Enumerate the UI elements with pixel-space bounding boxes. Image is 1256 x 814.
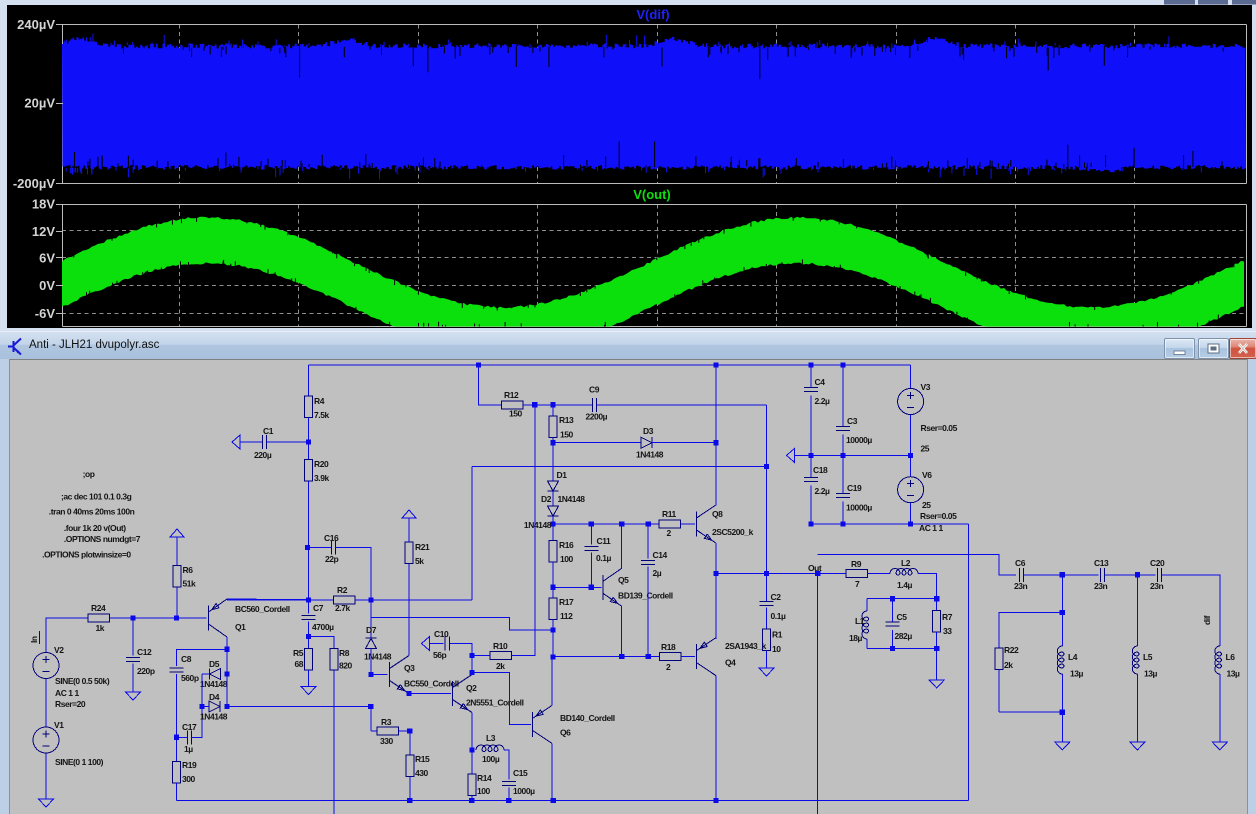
svg-text:R9: R9 (851, 559, 862, 569)
svg-text:;op: ;op (83, 469, 95, 479)
resistor R12 (502, 401, 524, 409)
junction C17 (174, 735, 179, 740)
ground R1 (759, 668, 774, 676)
svg-text:2.7k: 2.7k (335, 603, 350, 613)
capacitor C1 (262, 435, 266, 449)
wire In net (46, 618, 88, 652)
svg-text:C16: C16 (324, 533, 339, 543)
svg-text:D5: D5 (209, 659, 220, 669)
svg-text:R6: R6 (183, 565, 194, 575)
wire to R12 (479, 365, 502, 405)
junction R5/R8 (306, 634, 311, 639)
svg-text:R4: R4 (314, 396, 325, 406)
wire V6 top (910, 455, 912, 476)
junction C3 (840, 362, 845, 367)
wire R18 to Q4 base (681, 656, 695, 658)
resistor R9 (846, 570, 868, 578)
svg-text:3.9k: 3.9k (314, 473, 329, 483)
svg-text:C5: C5 (897, 612, 908, 622)
svg-text:23n: 23n (1094, 581, 1108, 591)
svg-text:C11: C11 (597, 536, 611, 546)
junction D5 (224, 671, 229, 676)
junction Q3 base (368, 672, 373, 677)
wire Q1e to R2 (227, 599, 334, 601)
wire C3 bottom (842, 435, 844, 456)
wire D7 to Q3 base (370, 649, 372, 675)
svg-text:0.1µ: 0.1µ (596, 553, 611, 563)
wire C17 left (177, 736, 188, 738)
svg-text:.OPTIONS numdgt=7: .OPTIONS numdgt=7 (64, 534, 141, 544)
wire R9 to L2 (868, 573, 891, 575)
svg-text:R12: R12 (504, 390, 519, 400)
svg-text:Q3: Q3 (404, 663, 415, 673)
svg-text:112: 112 (560, 611, 573, 621)
svg-text:SINE(0 0.5 50k): SINE(0 0.5 50k) (55, 676, 110, 686)
wire L1 bottom (866, 639, 868, 649)
svg-text:C1: C1 (263, 426, 274, 436)
wire C5 bottom lead (891, 630, 893, 648)
junction R17/fb (550, 627, 555, 632)
svg-text:240µV: 240µV (17, 17, 55, 32)
wire C5 top lead (891, 599, 893, 622)
resistor R15 (406, 755, 414, 777)
svg-text:282µ: 282µ (895, 631, 913, 641)
wire C4 top (810, 365, 812, 387)
voltage source V1 (33, 727, 59, 753)
capacitor C3 (836, 426, 850, 430)
junction D3 right (713, 440, 718, 445)
wire C18 bottom (810, 486, 812, 524)
svg-text:BD139_Cordell: BD139_Cordell (618, 591, 673, 601)
junction C14/R18 (646, 654, 651, 659)
svg-text:C2: C2 (771, 592, 782, 602)
svg-text:V6: V6 (922, 470, 932, 480)
wire D4 row to R3 riser (227, 706, 371, 708)
svg-text:2: 2 (666, 662, 671, 672)
wire Q6 collector to rail (551, 744, 553, 801)
resistor R16 (549, 541, 557, 563)
ground L4 (1055, 742, 1070, 750)
svg-text:Q2: Q2 (466, 683, 477, 693)
wire mid rail (795, 454, 911, 456)
svg-text:18µ: 18µ (849, 633, 863, 643)
svg-text:R2: R2 (337, 585, 348, 595)
svg-text:C15: C15 (513, 768, 528, 778)
junction D4 left (199, 704, 204, 709)
svg-text:BD140_Cordell: BD140_Cordell (560, 713, 615, 723)
resistor R7 (933, 611, 941, 633)
svg-text:C14: C14 (653, 550, 668, 560)
capacitor C5 (885, 622, 899, 626)
capacitor C15 (502, 781, 516, 785)
svg-text:300: 300 (182, 774, 196, 784)
junction C14 top (646, 521, 651, 526)
svg-text:7: 7 (855, 579, 860, 589)
junction C4 (808, 362, 813, 367)
svg-text:-200µV: -200µV (13, 176, 56, 191)
svg-text:Q5: Q5 (618, 575, 629, 585)
wire to C8 (177, 649, 228, 666)
junction 1N4148 node (550, 521, 555, 526)
wire Out to C6 (818, 554, 1017, 575)
junction Q1 collector (224, 647, 229, 652)
svg-text:R5: R5 (293, 648, 304, 658)
svg-text:Rser=20: Rser=20 (55, 699, 86, 709)
svg-text:23n: 23n (1014, 581, 1028, 591)
resistor R3 (377, 727, 399, 735)
junction rail R15 (407, 798, 412, 803)
svg-text:1N4148: 1N4148 (200, 679, 228, 689)
ground C12 (126, 692, 141, 700)
svg-text:1µ: 1µ (184, 744, 193, 754)
wire D2 to node (552, 516, 554, 524)
ground V1 (39, 799, 54, 807)
junction Out left (713, 571, 718, 576)
svg-text:R1: R1 (772, 630, 783, 640)
junction C7 top (306, 597, 311, 602)
waveform pane background (7, 5, 1252, 328)
junction rail Q6 (551, 798, 556, 803)
svg-text:C12: C12 (137, 647, 152, 657)
wire Q6 emitter up (551, 657, 553, 706)
wire Q8 collector (715, 365, 717, 506)
svg-text:2.2µ: 2.2µ (815, 486, 830, 496)
svg-text:D2: D2 (541, 494, 552, 504)
svg-text:2SA1943_k: 2SA1943_k (725, 641, 767, 651)
svg-text:D4: D4 (209, 692, 220, 702)
transistor Q4 2SA1943_k (697, 638, 716, 676)
svg-text:13µ: 13µ (1144, 669, 1158, 679)
wire Q5 collector up (621, 524, 623, 569)
LTspice window icon (8, 337, 24, 357)
resistor R4 (305, 396, 313, 418)
svg-text:25: 25 (921, 444, 930, 454)
svg-text:25: 25 (922, 500, 931, 510)
svg-text:BC560_Cordell: BC560_Cordell (235, 604, 290, 614)
svg-text:R7: R7 (942, 612, 953, 622)
power flag R6 top (170, 529, 184, 537)
ground L5 (1130, 742, 1145, 750)
svg-text:In: In (29, 636, 39, 643)
junction R3/R15 (407, 728, 412, 733)
wire D5 left (202, 673, 210, 675)
svg-text:R13: R13 (559, 415, 574, 425)
junction R10 riser (532, 402, 537, 407)
svg-text:C7: C7 (313, 603, 324, 613)
capacitor C4 (804, 387, 818, 391)
ground L6 (1212, 742, 1227, 750)
wire C15 to rail (508, 788, 510, 801)
junction R2/C16 (368, 597, 373, 602)
svg-text:68: 68 (294, 659, 303, 669)
svg-text:L6: L6 (1226, 652, 1236, 662)
ground tank (929, 680, 944, 688)
wire L5 bottom lead (1136, 674, 1138, 742)
wire Q3 collector to R21 (408, 564, 410, 656)
capacitor C7 (302, 615, 316, 619)
wire to R15 (409, 731, 411, 755)
junction V6 btm (908, 521, 913, 526)
wire V3 bottom (910, 414, 912, 455)
junction L3/R14 (469, 747, 474, 752)
wire C9 to right (597, 404, 767, 406)
svg-text:330: 330 (380, 736, 394, 746)
svg-text:2200µ: 2200µ (586, 412, 608, 422)
wire bias row (553, 523, 659, 525)
plot pane V(dif) (180, 25, 1135, 327)
resistor R5 (305, 649, 313, 671)
close button (1229, 338, 1256, 359)
resistor R22 (995, 648, 1003, 670)
capacitor C13 (1100, 568, 1104, 582)
svg-text:150: 150 (509, 409, 523, 419)
svg-text:18V: 18V (32, 197, 55, 212)
svg-text:23n: 23n (1150, 581, 1164, 591)
transistor Q2 2N5551_Cordell (453, 675, 473, 713)
wire R15 to rail (409, 777, 411, 801)
wire R2 right (355, 599, 472, 601)
junction C18 btm (808, 521, 813, 526)
junction V3/V6 (908, 453, 913, 458)
resistor R24 (88, 614, 110, 622)
wire C19 bottom (842, 502, 844, 524)
svg-text:Rser=0.05: Rser=0.05 (921, 423, 958, 433)
svg-text:56p: 56p (433, 650, 447, 660)
svg-text:L2: L2 (901, 558, 911, 568)
resistor R8 (330, 649, 338, 671)
capacitor C8 (170, 668, 184, 672)
svg-text:6V: 6V (39, 250, 55, 265)
junction R12 branch (476, 362, 481, 367)
wire flag to C10 (430, 643, 444, 645)
svg-text:L3: L3 (486, 733, 496, 743)
resistor R21 (405, 542, 413, 564)
svg-text:5k: 5k (415, 556, 424, 566)
svg-text:4700µ: 4700µ (312, 622, 334, 632)
junction C4/C18 (808, 453, 813, 458)
junction Q2c (469, 670, 474, 675)
wire L6 bottom lead (1219, 674, 1221, 742)
junction R16 bottom (550, 585, 555, 590)
svg-text:AC 1 1: AC 1 1 (55, 688, 79, 698)
wire R18 row (553, 656, 660, 658)
svg-text:33: 33 (943, 626, 952, 636)
resistor R19 (173, 762, 181, 784)
resistor R10 (490, 651, 512, 659)
junction R10 left (469, 653, 474, 658)
svg-text:R3: R3 (381, 717, 392, 727)
svg-text:V2: V2 (54, 645, 64, 655)
junction Out/C2 (764, 571, 769, 576)
wire Q5 emitter down (621, 606, 623, 657)
junction R18 row left (550, 654, 555, 659)
wire C18 top (810, 455, 812, 477)
svg-text:BC550_Cordell: BC550_Cordell (404, 679, 459, 689)
svg-text:220µ: 220µ (254, 450, 272, 460)
svg-text:1N4148: 1N4148 (524, 520, 552, 530)
junction R6 (174, 615, 179, 620)
wire D5-D4 right (226, 674, 228, 707)
capacitor C17 (187, 730, 191, 744)
diode D2 1N4148 (548, 506, 559, 516)
svg-text:D1: D1 (557, 470, 568, 480)
wire Out down off-page (817, 574, 819, 814)
wire to D5 (226, 649, 228, 674)
svg-text:C18: C18 (813, 465, 828, 475)
svg-text:100: 100 (560, 554, 574, 564)
trace V(dif) noise band (62, 37, 1246, 172)
wire Q8e-Out-Q4e (715, 543, 717, 639)
svg-text:13µ: 13µ (1070, 669, 1084, 679)
wire (226, 599, 228, 601)
svg-text:0.1µ: 0.1µ (771, 611, 786, 621)
wire V- rail down (968, 524, 970, 800)
wire to Q5 base (553, 586, 602, 588)
capacitor C11 (584, 546, 598, 550)
wire to D7 (370, 617, 372, 638)
wire C2 to R1 (766, 608, 768, 629)
capacitor C14 (641, 560, 655, 564)
wire L4 top lead (1061, 612, 1063, 646)
junction C11 (589, 521, 594, 526)
svg-text:2SC5200_k: 2SC5200_k (712, 527, 754, 537)
wire down to Out row (766, 405, 768, 574)
junction L4 top (1060, 572, 1065, 577)
resistor R13 (549, 416, 557, 438)
capacitor C16 (331, 540, 335, 554)
svg-text:;ac dec 101 0.1 0.3g: ;ac dec 101 0.1 0.3g (61, 492, 132, 502)
inductor L1 (862, 611, 869, 639)
wire R17 bottom (552, 620, 554, 631)
wire to R17 (552, 587, 554, 598)
junction C5 top (890, 596, 895, 601)
wire L1 top (866, 599, 868, 611)
capacitor C12 (126, 657, 140, 661)
wire flag to C1 (240, 441, 262, 443)
wire Q2 collector up (471, 655, 473, 674)
wire R24 to Q1 base (110, 617, 207, 619)
wire C17 to D4 (192, 707, 202, 738)
junction C19 btm (840, 521, 845, 526)
wire Out to C2 (766, 574, 768, 602)
wire C4 bottom (810, 396, 812, 456)
wire R4-R20 (308, 418, 310, 460)
wire Q1 collector (226, 637, 228, 649)
svg-text:C9: C9 (589, 385, 600, 395)
junction C1 (306, 439, 311, 444)
wire C12 to ground (132, 664, 134, 692)
resistor R11 (659, 520, 681, 528)
transistor Q8 2SC5200_k (697, 505, 716, 543)
voltage source V2 (33, 653, 59, 679)
transistor Q3 BC550_Cordell (390, 656, 410, 694)
junction D3 row (550, 440, 555, 445)
capacitor C6 (1019, 568, 1023, 582)
svg-text:51k: 51k (183, 579, 197, 589)
wire flag to R6 (176, 537, 178, 566)
svg-text:10000µ: 10000µ (846, 435, 872, 445)
svg-text:22p: 22p (325, 554, 339, 564)
resistor R2 (334, 596, 356, 604)
svg-text:R10: R10 (493, 641, 508, 651)
wire D1-D2 (552, 491, 554, 506)
wire R7 top lead (936, 599, 938, 611)
wire C13-C20 (1105, 574, 1156, 576)
svg-text:R17: R17 (559, 597, 574, 607)
wire R6 to In row (176, 587, 178, 618)
wire D5 to D4 (201, 674, 203, 707)
wire R1 to ground (766, 651, 768, 668)
junction rail C15 (506, 798, 511, 803)
inductor L5 (1132, 646, 1139, 674)
svg-text:V(out): V(out) (633, 187, 671, 202)
wire R21 top (408, 518, 410, 542)
junction L4 btm (1060, 710, 1065, 715)
capacitor C2 (760, 601, 774, 605)
wire fb riser (471, 466, 473, 600)
wire R20 to Q1 emitter row (308, 481, 310, 600)
voltage source V6 (898, 477, 924, 503)
svg-text:100µ: 100µ (482, 754, 500, 764)
svg-text:1N4148: 1N4148 (364, 652, 392, 662)
svg-text:-6V: -6V (35, 306, 56, 321)
trace V(out) sine band (62, 216, 1244, 328)
svg-text:560p: 560p (181, 673, 199, 683)
junction C12 (130, 615, 135, 620)
wire Q2 emitter down (471, 713, 473, 751)
wire tank to ground (936, 649, 938, 680)
svg-text:2.2µ: 2.2µ (815, 396, 830, 406)
svg-text:R19: R19 (182, 760, 197, 770)
power flag R21 (402, 510, 416, 518)
svg-text:R16: R16 (559, 540, 574, 550)
junction R7 btm (934, 646, 939, 651)
wire C11 top (590, 524, 592, 544)
svg-text:V(dif): V(dif) (636, 7, 669, 22)
capacitor C18 (804, 477, 818, 481)
wire tank top (867, 598, 937, 600)
wire ground rail (177, 799, 969, 801)
junction R13 (550, 402, 555, 407)
svg-text:Q8: Q8 (712, 509, 723, 519)
svg-text:R15: R15 (415, 754, 430, 764)
svg-text:C3: C3 (847, 416, 858, 426)
svg-text:2: 2 (667, 528, 672, 538)
junction C5 btm (890, 646, 895, 651)
wire C11 bottom (590, 553, 592, 588)
junction C11 bottom (589, 585, 594, 590)
svg-text:R20: R20 (314, 459, 329, 469)
svg-text:820: 820 (339, 661, 353, 671)
inductor L2 (890, 569, 918, 576)
svg-text:100: 100 (477, 786, 491, 796)
wire V2-V1 (45, 679, 47, 727)
svg-text:2N5551_Cordell: 2N5551_Cordell (466, 698, 524, 708)
junction rail R14 (469, 798, 474, 803)
svg-text:2k: 2k (496, 661, 505, 671)
capacitor C9 (592, 398, 596, 412)
junction tank TR (934, 596, 939, 601)
svg-text:C13: C13 (1094, 558, 1109, 568)
resistor R14 (468, 774, 476, 796)
svg-text:R21: R21 (415, 542, 430, 552)
svg-text:R22: R22 (1004, 645, 1019, 655)
svg-text:.four 1k 20 v(Out): .four 1k 20 v(Out) (64, 523, 126, 533)
svg-text:SINE(0 1 100): SINE(0 1 100) (55, 757, 104, 767)
junction Q5c (619, 521, 624, 526)
capacitor C20 (1157, 568, 1161, 582)
diode D5 1N4148 (210, 669, 221, 680)
